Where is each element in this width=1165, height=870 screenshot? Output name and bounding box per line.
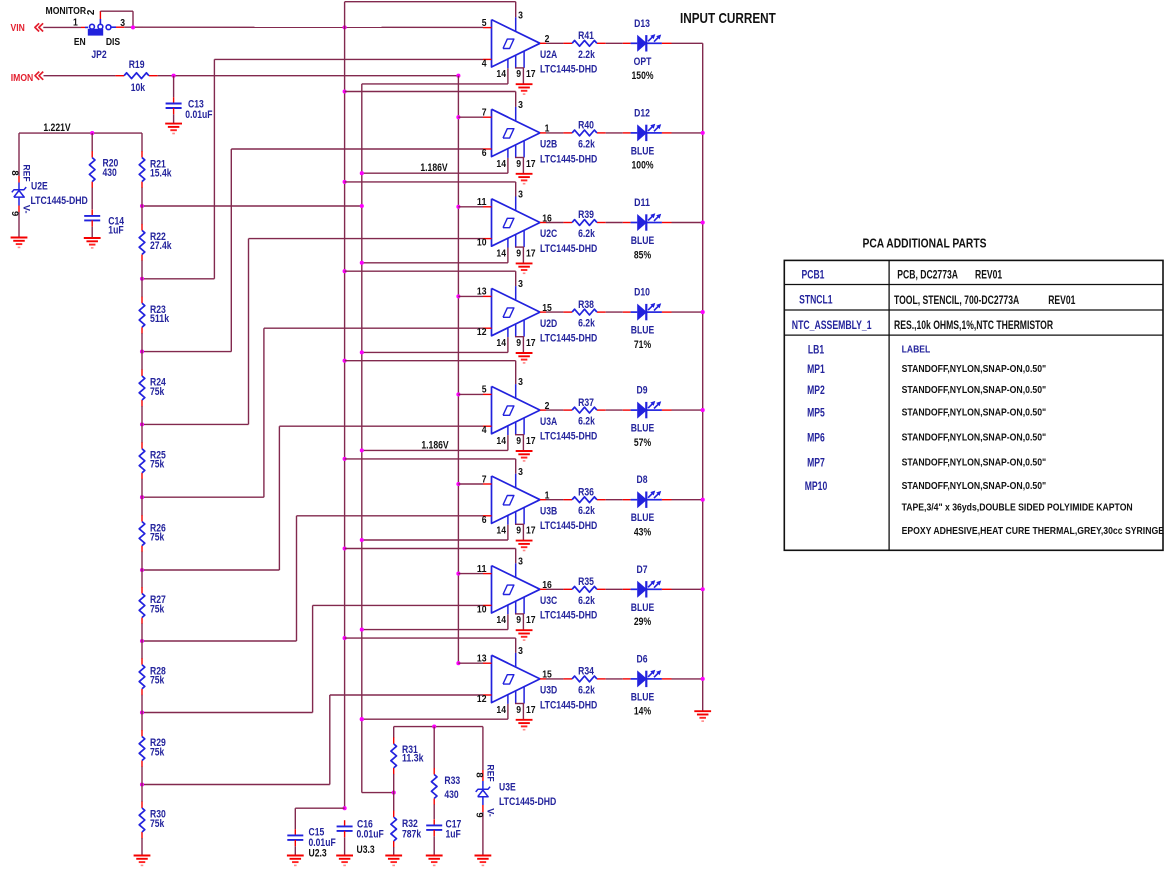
svg-text:BLUE: BLUE (631, 145, 655, 157)
svg-text:BLUE: BLUE (631, 691, 655, 703)
svg-text:IMON: IMON (11, 72, 34, 84)
svg-text:U2E: U2E (31, 180, 48, 192)
svg-text:R39: R39 (578, 209, 594, 221)
svg-text:75k: 75k (150, 746, 165, 758)
svg-text:57%: 57% (634, 437, 651, 449)
svg-text:14: 14 (496, 615, 506, 626)
svg-text:REF: REF (20, 164, 31, 181)
svg-text:15.4k: 15.4k (150, 167, 172, 179)
svg-text:LTC1445-DHD: LTC1445-DHD (540, 243, 597, 255)
svg-text:9: 9 (516, 436, 521, 447)
svg-text:10: 10 (477, 604, 487, 615)
svg-text:R41: R41 (578, 30, 594, 42)
svg-text:MP5: MP5 (807, 405, 825, 419)
svg-text:U2D: U2D (540, 318, 557, 330)
svg-text:10: 10 (477, 238, 487, 249)
svg-text:R33: R33 (444, 775, 460, 787)
svg-text:NTC_ASSEMBLY_1: NTC_ASSEMBLY_1 (792, 318, 872, 332)
svg-text:R35: R35 (578, 576, 594, 588)
svg-text:D10: D10 (634, 287, 650, 299)
svg-text:RES.,10k OHMS,1%,NTC THERMISTO: RES.,10k OHMS,1%,NTC THERMISTOR (894, 318, 1053, 332)
svg-text:BLUE: BLUE (631, 325, 655, 337)
svg-text:3: 3 (120, 18, 125, 29)
svg-text:11.3k: 11.3k (402, 753, 424, 765)
svg-text:U3D: U3D (540, 685, 557, 697)
svg-text:LABEL: LABEL (902, 345, 931, 356)
svg-text:OPT: OPT (634, 56, 652, 68)
svg-text:8: 8 (474, 772, 485, 777)
svg-text:1: 1 (545, 124, 550, 135)
svg-text:4: 4 (482, 425, 487, 436)
svg-text:BLUE: BLUE (631, 423, 655, 435)
svg-text:8: 8 (9, 170, 20, 175)
svg-text:17: 17 (526, 436, 536, 447)
svg-text:D12: D12 (634, 107, 650, 119)
svg-text:5: 5 (482, 385, 487, 396)
svg-text:430: 430 (103, 167, 117, 179)
svg-text:17: 17 (526, 69, 536, 80)
svg-text:9: 9 (516, 159, 521, 170)
svg-text:16: 16 (542, 213, 552, 224)
svg-text:9: 9 (516, 526, 521, 537)
svg-text:27.4k: 27.4k (150, 240, 172, 252)
svg-text:U3C: U3C (540, 595, 557, 607)
svg-text:LTC1445-DHD: LTC1445-DHD (540, 699, 597, 711)
svg-text:100%: 100% (632, 160, 654, 172)
svg-text:1.221V: 1.221V (43, 122, 71, 134)
svg-text:10k: 10k (131, 82, 146, 94)
svg-text:U3B: U3B (540, 505, 557, 517)
svg-text:MP10: MP10 (805, 479, 828, 493)
svg-text:9: 9 (516, 69, 521, 80)
svg-text:3: 3 (518, 646, 523, 657)
svg-text:9: 9 (516, 705, 521, 716)
svg-text:14: 14 (496, 248, 506, 259)
svg-text:2: 2 (86, 9, 97, 15)
svg-text:LTC1445-DHD: LTC1445-DHD (540, 431, 597, 443)
svg-text:14: 14 (496, 436, 506, 447)
svg-text:2: 2 (545, 401, 550, 412)
svg-text:9: 9 (474, 812, 485, 817)
svg-text:PCB1: PCB1 (802, 267, 825, 281)
svg-text:16: 16 (542, 580, 552, 591)
svg-text:6.2k: 6.2k (578, 595, 595, 607)
svg-text:U3.3: U3.3 (357, 844, 375, 856)
svg-text:75k: 75k (150, 459, 165, 471)
svg-text:4: 4 (482, 58, 487, 69)
svg-text:75k: 75k (150, 603, 165, 615)
svg-text:13: 13 (477, 287, 487, 298)
svg-text:71%: 71% (634, 339, 651, 351)
svg-text:D7: D7 (637, 564, 648, 576)
svg-text:1: 1 (545, 491, 550, 502)
svg-text:R40: R40 (578, 120, 594, 132)
svg-text:2.2k: 2.2k (578, 49, 595, 61)
svg-text:3: 3 (518, 10, 523, 21)
svg-text:REV01: REV01 (1048, 293, 1075, 307)
svg-text:STANDOFF,NYLON,SNAP-ON,0.50": STANDOFF,NYLON,SNAP-ON,0.50" (902, 385, 1047, 396)
svg-text:75k: 75k (150, 531, 165, 543)
svg-text:LTC1445-DHD: LTC1445-DHD (499, 796, 556, 808)
svg-text:12: 12 (477, 694, 487, 705)
svg-text:R38: R38 (578, 299, 594, 311)
svg-text:3: 3 (518, 377, 523, 388)
svg-text:9: 9 (9, 211, 20, 216)
svg-text:BLUE: BLUE (631, 235, 655, 247)
svg-text:U2A: U2A (540, 49, 557, 61)
svg-text:14: 14 (496, 159, 506, 170)
svg-text:6.2k: 6.2k (578, 684, 595, 696)
svg-text:1.186V: 1.186V (420, 162, 448, 174)
svg-text:PCB, DC2773A: PCB, DC2773A (897, 267, 958, 281)
svg-text:V-: V- (485, 808, 496, 817)
svg-text:D13: D13 (634, 18, 650, 30)
svg-text:STANDOFF,NYLON,SNAP-ON,0.50": STANDOFF,NYLON,SNAP-ON,0.50" (902, 458, 1047, 469)
svg-text:STNCL1: STNCL1 (799, 292, 833, 306)
svg-text:LTC1445-DHD: LTC1445-DHD (540, 333, 597, 345)
svg-text:EPOXY ADHESIVE,HEAT CURE THERM: EPOXY ADHESIVE,HEAT CURE THERMAL,GREY,30… (902, 526, 1165, 537)
svg-text:LTC1445-DHD: LTC1445-DHD (540, 153, 597, 165)
svg-text:11: 11 (477, 197, 487, 208)
svg-text:6.2k: 6.2k (578, 228, 595, 240)
svg-text:3: 3 (518, 190, 523, 201)
svg-text:17: 17 (526, 615, 536, 626)
svg-text:STANDOFF,NYLON,SNAP-ON,0.50": STANDOFF,NYLON,SNAP-ON,0.50" (902, 364, 1047, 375)
svg-text:29%: 29% (634, 616, 651, 628)
svg-text:6.2k: 6.2k (578, 318, 595, 330)
svg-text:6: 6 (482, 148, 487, 159)
svg-text:U2.3: U2.3 (309, 847, 327, 859)
svg-text:14: 14 (496, 69, 506, 80)
svg-text:3: 3 (518, 556, 523, 567)
svg-text:MP2: MP2 (807, 383, 825, 397)
svg-text:6: 6 (482, 515, 487, 526)
svg-text:75k: 75k (150, 386, 165, 398)
svg-text:9: 9 (516, 338, 521, 349)
svg-text:R34: R34 (578, 666, 594, 678)
svg-text:430: 430 (444, 789, 458, 801)
svg-text:6.2k: 6.2k (578, 416, 595, 428)
svg-text:MP7: MP7 (807, 455, 825, 469)
svg-text:3: 3 (518, 467, 523, 478)
svg-text:15: 15 (542, 303, 552, 314)
svg-text:0.01uF: 0.01uF (185, 109, 212, 121)
svg-text:R37: R37 (578, 397, 594, 409)
svg-text:EN: EN (74, 37, 86, 48)
svg-text:14: 14 (496, 526, 506, 537)
svg-text:11: 11 (477, 564, 487, 575)
svg-text:1uF: 1uF (446, 829, 461, 841)
svg-text:INPUT CURRENT: INPUT CURRENT (680, 10, 776, 27)
svg-text:1: 1 (73, 18, 78, 29)
svg-text:14: 14 (496, 705, 506, 716)
svg-text:6.2k: 6.2k (578, 505, 595, 517)
svg-text:12: 12 (477, 327, 487, 338)
svg-text:150%: 150% (632, 70, 654, 82)
svg-text:MONITOR: MONITOR (46, 6, 87, 17)
svg-text:VIN: VIN (11, 22, 25, 34)
svg-text:MP1: MP1 (807, 362, 825, 376)
svg-text:14%: 14% (634, 706, 651, 718)
svg-text:U3A: U3A (540, 416, 557, 428)
svg-text:7: 7 (482, 108, 487, 119)
svg-text:17: 17 (526, 705, 536, 716)
svg-text:1.186V: 1.186V (421, 439, 449, 451)
svg-text:7: 7 (482, 474, 487, 485)
svg-text:LTC1445-DHD: LTC1445-DHD (31, 195, 88, 207)
svg-text:U3E: U3E (499, 781, 516, 793)
svg-text:13: 13 (477, 654, 487, 665)
svg-text:9: 9 (516, 248, 521, 259)
svg-text:STANDOFF,NYLON,SNAP-ON,0.50": STANDOFF,NYLON,SNAP-ON,0.50" (902, 408, 1047, 419)
svg-text:R19: R19 (129, 59, 145, 71)
svg-text:85%: 85% (634, 249, 651, 261)
svg-text:5: 5 (482, 18, 487, 29)
svg-text:787k: 787k (402, 828, 422, 840)
svg-text:LTC1445-DHD: LTC1445-DHD (540, 610, 597, 622)
svg-text:R36: R36 (578, 486, 594, 498)
svg-text:2: 2 (545, 34, 550, 45)
svg-text:17: 17 (526, 526, 536, 537)
svg-text:17: 17 (526, 159, 536, 170)
svg-text:LB1: LB1 (808, 342, 824, 356)
svg-text:17: 17 (526, 248, 536, 259)
svg-text:D11: D11 (634, 197, 650, 209)
svg-text:3: 3 (518, 100, 523, 111)
svg-text:TOOL, STENCIL, 700-DC2773A: TOOL, STENCIL, 700-DC2773A (894, 293, 1019, 307)
svg-text:0.01uF: 0.01uF (357, 829, 384, 841)
svg-text:LTC1445-DHD: LTC1445-DHD (540, 520, 597, 532)
svg-text:PCA ADDITIONAL PARTS: PCA ADDITIONAL PARTS (863, 237, 987, 251)
svg-text:17: 17 (526, 338, 536, 349)
svg-text:STANDOFF,NYLON,SNAP-ON,0.50": STANDOFF,NYLON,SNAP-ON,0.50" (902, 481, 1047, 492)
svg-text:LTC1445-DHD: LTC1445-DHD (540, 64, 597, 76)
svg-text:9: 9 (516, 615, 521, 626)
svg-text:D6: D6 (637, 653, 648, 665)
svg-text:75k: 75k (150, 675, 165, 687)
svg-text:DIS: DIS (106, 37, 121, 48)
svg-text:REV01: REV01 (975, 267, 1002, 281)
svg-text:JP2: JP2 (91, 49, 106, 61)
svg-text:3: 3 (518, 279, 523, 290)
svg-text:MP6: MP6 (807, 430, 825, 444)
svg-text:U2C: U2C (540, 228, 557, 240)
svg-text:TAPE,3/4" x 36yds,DOUBLE SIDED: TAPE,3/4" x 36yds,DOUBLE SIDED POLYIMIDE… (902, 503, 1133, 514)
svg-text:15: 15 (542, 670, 552, 681)
svg-text:75k: 75k (150, 818, 165, 830)
svg-text:1uF: 1uF (108, 225, 123, 237)
svg-text:D8: D8 (637, 474, 648, 486)
svg-text:14: 14 (496, 338, 506, 349)
svg-text:D9: D9 (637, 385, 648, 397)
svg-text:STANDOFF,NYLON,SNAP-ON,0.50": STANDOFF,NYLON,SNAP-ON,0.50" (902, 433, 1047, 444)
svg-text:BLUE: BLUE (631, 512, 655, 524)
svg-text:BLUE: BLUE (631, 602, 655, 614)
svg-text:511k: 511k (150, 313, 170, 325)
svg-text:U2B: U2B (540, 139, 557, 151)
svg-text:REF: REF (485, 764, 496, 781)
svg-text:6.2k: 6.2k (578, 138, 595, 150)
svg-text:43%: 43% (634, 527, 651, 539)
